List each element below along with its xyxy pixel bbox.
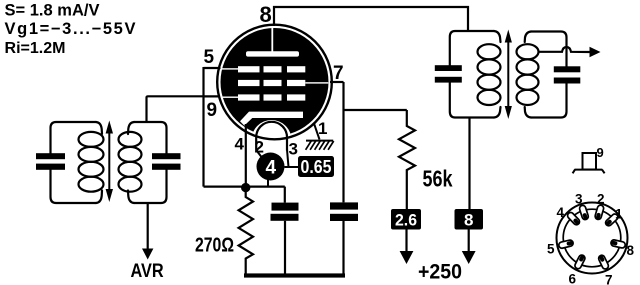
wire: bracket vertical down to cathode node	[202, 67, 204, 187]
tube heater notch (white cutout)	[252, 120, 292, 160]
arrow: +250 right	[462, 251, 476, 264]
wire: shield lead pin 1	[314, 124, 320, 140]
wire: screen feed horizontal to 56k	[344, 109, 407, 111]
svg-text:5: 5	[204, 47, 215, 68]
svg-text:7: 7	[333, 63, 344, 84]
wire: right tank loop top/right/bottom	[134, 122, 167, 203]
wire: anode tank corner stubs	[494, 31, 501, 118]
tuning arrow (variable coupling, right transformer)	[505, 30, 512, 120]
wire: heater return below circle	[267, 180, 269, 187]
wire: anode pin 8 to top rail	[274, 7, 468, 31]
arrow: AVR	[142, 249, 153, 260]
grid g2 row	[238, 80, 328, 86]
wire: heater leg pin 2	[257, 151, 262, 158]
node: cathode junction dot	[241, 183, 250, 192]
svg-text:2.6: 2.6	[395, 211, 417, 230]
wire: C4 bottom lead	[342, 221, 344, 274]
wire: anode supply down from tank	[468, 118, 470, 210]
svg-text:4: 4	[235, 135, 245, 154]
heater voltage marker (4 V)	[257, 153, 285, 181]
socket contact pin 6	[574, 254, 586, 270]
wire: heater leg pin 3	[287, 150, 289, 168]
anode lead (internal)	[271, 27, 273, 52]
svg-text:Ri=1.2M: Ri=1.2M	[5, 40, 66, 57]
socket contact pin 3	[579, 205, 589, 221]
svg-text:270Ω: 270Ω	[195, 235, 234, 257]
wire: output tap with crossover hop	[539, 47, 590, 52]
socket contact pin 7	[598, 254, 610, 270]
socket outer circle	[557, 203, 628, 274]
svg-text:2: 2	[597, 192, 605, 207]
svg-text:9: 9	[207, 100, 218, 121]
wire: AVR lead down from tank	[147, 204, 149, 250]
svg-text:2: 2	[255, 138, 264, 157]
wire: left tank loop top/left/bottom	[51, 122, 97, 203]
grid g1 row	[219, 94, 305, 100]
svg-text:8: 8	[260, 2, 272, 27]
resistor R2 56k (screen dropper)	[399, 110, 415, 209]
arrow: output to next stage	[590, 47, 601, 57]
wire: output tank corner stubs	[525, 32, 531, 118]
wire: grid lead from tank to tube (pin 9 bracket)	[147, 96, 204, 121]
wire: screen line down	[342, 82, 344, 202]
coil L2 (secondary)	[119, 132, 142, 192]
coil L1 (primary)	[79, 132, 104, 192]
svg-text:Vg1=−3...−55V: Vg1=−3...−55V	[5, 20, 136, 38]
coil L4 (output winding)	[517, 44, 539, 105]
wire: pin 9 stub	[204, 95, 221, 97]
socket contact pin 1	[604, 213, 619, 227]
wire: cathode lead pin 4	[245, 124, 247, 186]
tube V1 anode disc	[221, 28, 329, 136]
anode plate bar	[246, 51, 299, 56]
svg-text:6: 6	[569, 272, 577, 285]
wire: anode tank loop top/left/bottom	[450, 31, 494, 118]
socket contact pin 5	[558, 239, 574, 248]
wire: to +250 (left)	[405, 230, 407, 252]
tuning arrow (variable coupling, left transformer)	[106, 121, 113, 203]
wire: pin 5 stub	[204, 67, 221, 69]
wire: link to heater current box	[285, 166, 299, 168]
heater filament arch	[256, 122, 287, 151]
svg-text:56k: 56k	[423, 166, 453, 192]
svg-text:8: 8	[464, 211, 473, 230]
socket contact pin 8	[610, 239, 626, 248]
wire: C3 bottom lead	[284, 221, 286, 274]
svg-text:4: 4	[266, 158, 277, 179]
capacitor C6 (output tank)	[554, 66, 581, 83]
capacitor C4 (screen bypass)	[330, 202, 358, 221]
capacitor C5 (anode tank)	[435, 65, 462, 82]
svg-text:1: 1	[318, 119, 327, 138]
svg-text:1: 1	[615, 207, 623, 222]
heater current box 0.65 A	[298, 156, 334, 177]
svg-text:0.65: 0.65	[301, 157, 332, 177]
wire: to +250 (right)	[468, 230, 470, 252]
cathode bar	[240, 112, 303, 126]
shield (hatched) symbol	[306, 141, 334, 150]
svg-text:3: 3	[575, 192, 583, 207]
ground rail (chassis bus)	[244, 273, 345, 277]
wire: C3 top lead	[284, 187, 286, 203]
svg-text:5: 5	[547, 242, 555, 257]
socket inner circle	[563, 209, 621, 267]
socket contact pin 2	[594, 204, 604, 220]
resistor R1 270 ohm (cathode)	[239, 190, 253, 274]
wire: right tank corner stubs into coil	[128, 122, 134, 203]
svg-text:AVR: AVR	[131, 260, 164, 282]
grid g3 row	[219, 66, 305, 72]
tube envelope	[217, 25, 332, 140]
current box 8 mA	[455, 209, 484, 230]
svg-text:7: 7	[605, 273, 613, 285]
top cap symbol (pin 9)	[573, 153, 605, 173]
svg-text:4: 4	[557, 205, 565, 220]
coil L3 (anode winding)	[478, 44, 501, 105]
svg-text:8: 8	[627, 243, 635, 258]
svg-text:+250: +250	[418, 261, 462, 284]
arrow: +250 left	[400, 251, 414, 264]
capacitor C2 (grid tank)	[152, 153, 181, 170]
wire: pin 7 stub	[330, 81, 344, 83]
wire: output tank loop top/right/bottom	[531, 32, 567, 118]
wire: left tank corner stubs into coil	[96, 122, 102, 203]
capacitor C3 (cathode bypass)	[271, 203, 299, 221]
current box 2.6 mA	[391, 209, 421, 230]
svg-text:9: 9	[597, 145, 604, 160]
svg-text:S= 1.8 mA/V: S= 1.8 mA/V	[5, 2, 100, 20]
wire: cathode node horizontal	[204, 186, 285, 188]
socket contact pin 4	[566, 211, 580, 226]
capacitor C1 (left tank)	[36, 153, 65, 170]
svg-text:3: 3	[289, 140, 298, 159]
